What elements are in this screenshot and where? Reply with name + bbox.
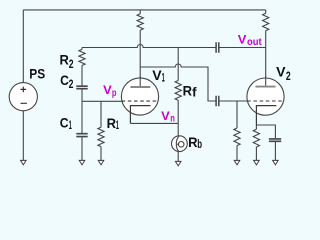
resistor R1 bbox=[98, 101, 104, 160]
current source Rb bbox=[172, 136, 188, 152]
V1 grid (dashed) bbox=[122, 100, 157, 102]
resistor R2 bbox=[79, 48, 85, 86]
resistor V2 plate load bbox=[263, 10, 269, 87]
svg-text:PS: PS bbox=[29, 66, 45, 81]
ground V2 grid resistor bbox=[234, 160, 240, 165]
wire V1 plate branch to coupling cap, hop over Rf line bbox=[140, 64, 215, 101]
svg-text:out: out bbox=[247, 37, 262, 48]
V2 cathode bbox=[256, 106, 276, 125]
svg-text:2: 2 bbox=[69, 59, 74, 71]
svg-text:b: b bbox=[197, 139, 202, 151]
ground R1 bbox=[98, 160, 104, 165]
V2 plate bbox=[255, 86, 275, 88]
wire PS bottom lead bbox=[22, 111, 24, 161]
ground PS bbox=[21, 160, 27, 165]
wire cathode node to bypass cap bbox=[256, 125, 275, 138]
triode V1 envelope bbox=[121, 78, 158, 115]
wire C2 to Vp node bbox=[81, 89, 83, 101]
svg-text:V: V bbox=[238, 33, 248, 47]
ground V2 cathode resistor bbox=[254, 160, 260, 165]
wire V1 cathode to Vn node bbox=[130, 122, 178, 124]
ground symbols (open arrows) bbox=[21, 160, 279, 166]
svg-text:R: R bbox=[183, 83, 193, 98]
ground bypass cap bbox=[273, 160, 279, 165]
V2 grid (dashed) bbox=[247, 100, 282, 102]
resistor Rf bbox=[175, 48, 181, 124]
resistor V1 plate load bbox=[137, 10, 143, 87]
wire bypass cap to ground bbox=[274, 142, 276, 161]
wire Vp node down to C1 bbox=[81, 101, 83, 133]
V2 plate lead bbox=[265, 77, 267, 87]
triode V2 envelope bbox=[247, 78, 284, 115]
svg-text:1: 1 bbox=[69, 120, 72, 132]
svg-text:R: R bbox=[60, 53, 70, 68]
V1 plate bbox=[130, 86, 150, 88]
resistor V2 grid leak bbox=[234, 101, 240, 160]
wire Vout feedback line with hop over V1 plate branch bbox=[82, 45, 216, 48]
capacitor output coupling bbox=[216, 42, 219, 52]
svg-text:V: V bbox=[276, 65, 285, 80]
resistor V2 cathode bbox=[253, 125, 259, 160]
capacitor interstage coupling bbox=[216, 96, 219, 106]
svg-text:2: 2 bbox=[286, 71, 291, 83]
wire Vn node to Rb bbox=[177, 123, 179, 135]
svg-text:V: V bbox=[161, 109, 171, 123]
wire Vout cap to V2 plate node bbox=[219, 47, 265, 49]
svg-text:1: 1 bbox=[116, 120, 119, 132]
svg-text:1: 1 bbox=[162, 72, 165, 84]
V1 cathode bbox=[130, 106, 150, 124]
capacitor C2 bbox=[76, 86, 87, 89]
wire PS top lead bbox=[22, 10, 24, 83]
ground Rb bbox=[175, 161, 181, 166]
power supply PS bbox=[9, 83, 37, 111]
V1 plate lead bbox=[139, 77, 141, 88]
wire Vp node to V1 grid bbox=[82, 100, 122, 102]
svg-text:n: n bbox=[170, 113, 175, 124]
wire top rail B+ bbox=[23, 9, 265, 11]
capacitor V2 cathode bypass bbox=[269, 139, 281, 141]
wire Rb to ground bbox=[177, 152, 179, 162]
svg-text:V: V bbox=[152, 68, 161, 83]
ground C1 bbox=[79, 160, 85, 165]
wire C1 to ground bbox=[81, 137, 83, 160]
svg-text:p: p bbox=[112, 88, 117, 99]
wire coupling cap to V2 grid bbox=[219, 100, 247, 102]
svg-text:2: 2 bbox=[69, 79, 74, 91]
svg-text:C: C bbox=[60, 116, 69, 131]
svg-text:R: R bbox=[107, 116, 117, 131]
capacitor C1 bbox=[76, 134, 87, 137]
